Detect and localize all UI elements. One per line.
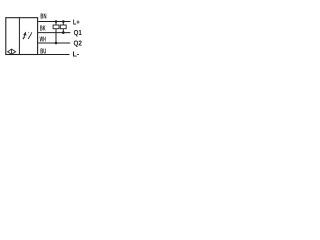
- svg-text:Q1: Q1: [74, 30, 82, 37]
- junction dot BN/load2: [62, 20, 65, 23]
- proximity symbol diamond: [8, 49, 16, 55]
- svg-text:L+: L+: [73, 19, 80, 26]
- junction dot BN/load1: [55, 20, 58, 23]
- svg-text:BN: BN: [40, 13, 46, 20]
- svg-text:BU: BU: [40, 49, 46, 56]
- svg-text:L-: L-: [73, 52, 80, 59]
- switch contact stroke: [28, 32, 32, 39]
- wire vertical load 2 drop (L+ to Q1 wire): [62, 22, 64, 33]
- background: [0, 0, 150, 82]
- svg-text:Q2: Q2: [74, 40, 82, 47]
- wire vertical load 1 drop (L+ to Q2 wire): [55, 22, 57, 44]
- actuation arrow: [23, 32, 27, 39]
- svg-text:BK: BK: [40, 26, 46, 33]
- svg-text:WH: WH: [40, 37, 46, 44]
- sensor S1 body outline: [6, 18, 38, 55]
- junction dot WH/load1: [55, 42, 58, 45]
- load resistor RL1: [53, 25, 59, 29]
- sensor face divider: [18, 18, 20, 55]
- wire BU (L- rail): [38, 54, 70, 56]
- wire BK (Q1): [38, 32, 70, 34]
- load resistor RL2: [60, 25, 66, 29]
- wire BN (L+ rail): [38, 21, 70, 23]
- wire WH (Q2): [38, 42, 70, 44]
- junction dot BK/load2: [62, 31, 65, 34]
